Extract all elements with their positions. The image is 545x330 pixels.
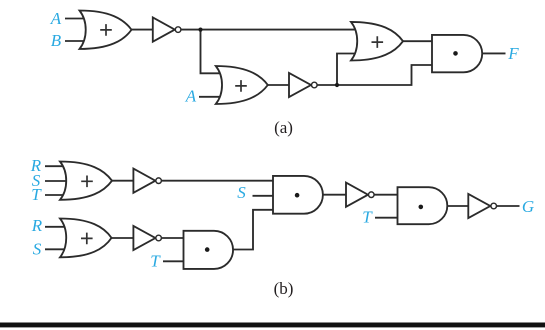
and-gate AND3 (input T) [184, 231, 234, 269]
and-gate AND2 (3-input, input S) [273, 176, 323, 214]
wire junction2 up to OR3 bottom input [337, 54, 358, 86]
inverter U4 bubble [156, 235, 162, 241]
wire AND3 output up to AND2 bottom input [233, 210, 273, 250]
inverter U5 bubble [369, 192, 375, 198]
wire T input to AND3 bottom input [163, 260, 184, 262]
svg-text:A: A [50, 9, 62, 28]
inverter U1 triangle [153, 18, 175, 42]
inverter U5 triangle [346, 183, 368, 207]
wire OR3 output to AND1 top input [403, 40, 433, 42]
or-gate OR2 (input A) [216, 66, 268, 104]
wire S input to OR4 [45, 180, 74, 182]
dot symbol in AND3 [205, 247, 210, 252]
plus symbol in OR5 [81, 233, 93, 245]
plus symbol in OR3 [372, 36, 384, 48]
svg-text:G: G [522, 197, 534, 216]
wire T input to OR4 [45, 194, 74, 196]
or-gate OR1 (inputs A,B) [80, 11, 132, 50]
and-gate AND1 (output F) [432, 35, 482, 72]
wire AND4 output to inverter6 [447, 205, 470, 207]
wire AND2 output to inverter5 [323, 194, 348, 196]
inverter U2 bubble [312, 82, 318, 88]
wire inverter1 output long horizontal to OR3 top input [181, 29, 358, 31]
wire inverter6 bubble to G [497, 205, 520, 207]
junction node after inverter U2 [335, 83, 339, 87]
svg-text:S: S [33, 239, 42, 258]
inverter U4 triangle [133, 226, 155, 250]
or-gate OR4 (inputs R,S,T) [60, 162, 112, 200]
wire junction2 right and up to AND1 bottom input [337, 65, 433, 85]
svg-text:T: T [150, 251, 161, 270]
inverter U2 triangle [289, 73, 311, 97]
dot symbol in AND1 [453, 51, 458, 56]
svg-text:S: S [237, 183, 246, 202]
wire AND1 output to F [482, 52, 506, 54]
svg-text:(b): (b) [274, 279, 294, 298]
bottom rule bar [0, 323, 545, 328]
wire R input to OR4 [45, 165, 74, 167]
plus symbol in OR4 [81, 176, 93, 188]
svg-text:(a): (a) [274, 118, 293, 137]
or-gate OR3 (top right) [351, 22, 403, 61]
wire OR4 output to inverter3 [112, 180, 135, 182]
inverter U3 bubble [156, 178, 162, 184]
inverter U6 bubble [491, 203, 497, 209]
svg-text:A: A [185, 87, 197, 106]
dot symbol in AND4 [419, 205, 424, 210]
or-gate OR5 (inputs R,S) [60, 219, 112, 258]
inverter U3 triangle [133, 169, 155, 193]
wire inverter4 bubble to AND3 top input [162, 237, 184, 239]
svg-text:T: T [31, 185, 42, 204]
wire inverter5 bubble to AND4 top input [375, 194, 398, 196]
plus symbol in OR2 [235, 80, 247, 92]
wire A input to OR2 [199, 96, 224, 98]
junction node after inverter U1 [198, 28, 202, 32]
svg-text:R: R [31, 216, 43, 235]
wire OR5 output to inverter4 [112, 237, 136, 239]
wire inverter2 bubble to junction [318, 84, 338, 86]
wire S input to AND2 middle input [253, 195, 274, 197]
wire OR2 output to inverter2 [268, 84, 291, 86]
inverter U6 triangle [468, 194, 490, 218]
wire B input to OR1 [65, 40, 88, 42]
dot symbol in AND2 [295, 193, 300, 198]
wire inverter3 output long horizontal to AND2 top input [162, 180, 273, 182]
wire A input to OR1 [65, 18, 88, 20]
svg-text:B: B [51, 31, 62, 50]
inverter U1 bubble [175, 27, 181, 33]
svg-text:F: F [507, 44, 519, 63]
wire junction down to OR2 top input [201, 30, 225, 74]
wire S input to OR5 [45, 248, 74, 250]
plus symbol in OR1 [100, 24, 112, 36]
and-gate AND4 (input T) [398, 187, 448, 224]
wire OR1 output to inverter [132, 29, 155, 31]
wire T input to AND4 bottom input [375, 217, 398, 219]
svg-text:T: T [362, 208, 373, 227]
wire R input to OR5 [45, 226, 74, 228]
